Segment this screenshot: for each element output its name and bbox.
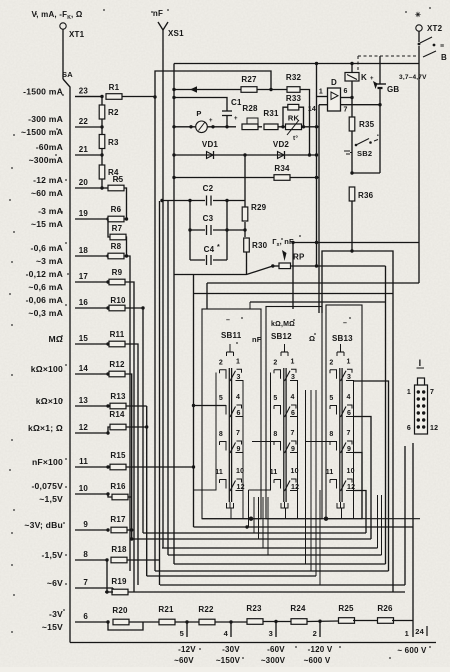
wire bus 533 — [143, 532, 366, 534]
resistor R13 — [110, 403, 126, 409]
wire SB13 pin8 link — [306, 441, 331, 443]
wire C4 row — [190, 259, 227, 261]
wire leg right a — [377, 495, 379, 548]
capacitor C3 — [205, 226, 213, 235]
svg-text:7: 7 — [83, 578, 88, 587]
svg-text:R20: R20 — [112, 606, 128, 615]
contact group pins 2/1/3 — [329, 370, 331, 374]
svg-text:6: 6 — [291, 410, 295, 417]
wire leg SB12 e — [315, 390, 317, 576]
svg-text:2: 2 — [329, 359, 333, 366]
wire leg SB12 c — [305, 390, 307, 564]
svg-text:K: K — [361, 73, 367, 82]
pin 7 stub — [341, 104, 381, 106]
svg-text:≡: ≡ — [440, 43, 444, 50]
svg-text:R15: R15 — [110, 451, 126, 460]
wire R32 down to VD row — [300, 90, 310, 156]
wire left rail — [194, 373, 216, 491]
wire leg SB12 f — [319, 490, 321, 585]
resistor R12 — [109, 371, 125, 377]
pin 14 stub — [319, 104, 328, 106]
wire XT1 to SA — [62, 29, 64, 79]
resistor R30 — [244, 238, 250, 252]
svg-text:12: 12 — [79, 423, 89, 432]
junction SB2 bottom — [350, 171, 353, 174]
wire K top — [351, 64, 353, 73]
svg-text:23: 23 — [79, 87, 89, 96]
RK variable arrow t — [287, 120, 299, 135]
svg-text:P: P — [196, 109, 201, 118]
wire bus 293 — [194, 293, 394, 295]
wire contact 23 — [75, 96, 102, 98]
svg-text:21: 21 — [79, 145, 89, 154]
capacitor C1 — [222, 110, 232, 112]
wire frame B — [155, 71, 271, 97]
wire bus 585 — [160, 584, 405, 586]
svg-text:-0,6 mA: -0,6 mA — [31, 243, 63, 253]
wire — [112, 588, 114, 592]
resistor R31 — [264, 124, 278, 130]
svg-text:2: 2 — [273, 359, 277, 366]
capacitor C4 — [205, 256, 213, 265]
svg-text:~0,3 mA: ~0,3 mA — [28, 308, 63, 318]
box SB11 — [202, 309, 261, 519]
resistor R29 — [242, 207, 248, 221]
wire R33 left — [283, 107, 288, 127]
svg-text:4: 4 — [236, 394, 240, 401]
wire R33 right — [299, 107, 304, 127]
svg-text:R26: R26 — [377, 604, 393, 613]
wire left frame vertical — [173, 64, 175, 565]
svg-text:t°: t° — [293, 134, 298, 142]
wire K to pin6 — [351, 81, 353, 98]
svg-text:2: 2 — [313, 629, 317, 638]
wire contact 19 — [75, 218, 108, 220]
wire C2 row — [162, 200, 245, 202]
wire leg SB11 b — [253, 497, 255, 533]
resistor R17 — [111, 527, 127, 533]
resistor R11 — [109, 341, 125, 347]
svg-text:-3V: -3V — [49, 609, 63, 619]
wire R27 row left — [174, 89, 243, 91]
svg-text:1: 1 — [291, 358, 295, 365]
svg-text:SB13: SB13 — [332, 334, 353, 343]
wire cap bank right rail — [226, 199, 228, 260]
wire sh SB13 down — [341, 508, 343, 519]
relay K — [345, 73, 359, 82]
svg-text:-1,5V: -1,5V — [41, 550, 63, 560]
potentiometer RP — [279, 263, 291, 269]
contact group pins 5/4/6 — [273, 406, 275, 410]
svg-text:~60 mA: ~60 mA — [31, 188, 63, 198]
wire VD row — [174, 154, 317, 156]
wire R7 to R8 — [125, 237, 128, 256]
wire bus 564 — [174, 563, 386, 565]
svg-text:R32: R32 — [286, 73, 302, 82]
svg-text:-0,06 mA: -0,06 mA — [26, 295, 63, 305]
resistor R32 — [287, 87, 300, 93]
wire loop to R16 — [108, 494, 112, 497]
svg-text:SB2: SB2 — [357, 149, 372, 158]
junction — [172, 125, 175, 128]
svg-text:~3 mA: ~3 mA — [36, 256, 63, 266]
svg-text:15: 15 — [79, 334, 89, 343]
tap 5 — [186, 622, 188, 637]
svg-text:7: 7 — [347, 430, 351, 437]
svg-text:6: 6 — [237, 410, 241, 417]
svg-text:8: 8 — [219, 431, 223, 438]
svg-text:R30: R30 — [252, 241, 268, 250]
wire leg SB11 a — [248, 490, 250, 527]
box SB13 — [326, 305, 362, 519]
svg-text:11: 11 — [79, 457, 88, 466]
resistor R18 — [111, 557, 127, 563]
wire contact 12 — [75, 432, 108, 434]
svg-text:~150V: ~150V — [216, 656, 241, 665]
svg-text:R22: R22 — [198, 605, 214, 614]
svg-text:VD1: VD1 — [202, 140, 219, 149]
wire R19 bus row — [128, 591, 405, 593]
wire pin6 to R35 — [351, 98, 353, 118]
wire left vertical 168 — [167, 201, 169, 555]
pin 6 stub — [341, 97, 353, 99]
diode VD2 — [278, 152, 285, 159]
svg-text:R29: R29 — [251, 203, 267, 212]
contact group pins 5/4/6 — [329, 406, 331, 410]
wire R16 right — [128, 496, 132, 498]
wire to SB11 pin5 — [194, 405, 227, 407]
svg-text:R3: R3 — [108, 138, 119, 147]
resistor R35 — [349, 117, 355, 131]
wire VD row to R29 — [244, 155, 246, 207]
wire R18 right — [127, 559, 160, 561]
svg-text:R12: R12 — [109, 360, 125, 369]
wire bus 548 — [162, 547, 378, 549]
svg-text:nF: nF — [153, 9, 163, 18]
wire R26 out tap 1 — [392, 621, 413, 638]
svg-text:12: 12 — [430, 425, 438, 432]
svg-text:11: 11 — [270, 469, 278, 476]
svg-text:-60mA: -60mA — [36, 142, 63, 152]
contact group pins 8/7/9 — [219, 442, 221, 446]
wire leg SB12 a — [262, 497, 264, 548]
switch B — [418, 31, 420, 42]
wire RP right — [291, 265, 386, 267]
wire SB13 pin3 wrap — [354, 381, 389, 571]
resistor R28 — [242, 124, 258, 130]
screen symbol — [340, 502, 342, 503]
wire cap bank left rail — [189, 201, 191, 261]
svg-text:-0,12 mA: -0,12 mA — [26, 269, 63, 279]
svg-text:1: 1 — [319, 89, 323, 96]
wire sh SB11 down — [230, 508, 232, 519]
wire R11 right down — [125, 344, 138, 585]
svg-text:C2: C2 — [203, 184, 214, 193]
svg-text:~300mA: ~300mA — [29, 155, 63, 165]
junction R29-R30 — [243, 228, 246, 231]
wire mid vertical — [316, 64, 318, 267]
capacitor C2 — [205, 196, 213, 205]
svg-text:9: 9 — [347, 446, 351, 453]
junction — [189, 125, 192, 128]
wire contact 14 — [75, 373, 108, 375]
wire sh SB12 down — [285, 508, 287, 519]
wire contact 20 — [75, 187, 102, 189]
resistor R9 — [109, 279, 125, 285]
wire down to SB12 — [292, 243, 294, 310]
resistor R6 — [108, 216, 124, 222]
wire contact 18 — [75, 255, 108, 257]
wire big box left — [193, 275, 195, 528]
svg-text:R36: R36 — [358, 191, 374, 200]
svg-text:R8: R8 — [111, 242, 122, 251]
wire leg gap a — [258, 497, 260, 539]
wire RP left — [273, 265, 279, 267]
svg-text:I: I — [419, 358, 422, 368]
svg-text:3: 3 — [269, 629, 273, 638]
svg-text:R31: R31 — [263, 109, 279, 118]
resistor R16 — [112, 494, 128, 500]
svg-text:6: 6 — [83, 612, 88, 621]
wire contact 7 — [75, 587, 113, 589]
svg-text:✳: ✳ — [415, 11, 421, 19]
svg-text:D: D — [331, 78, 337, 87]
dashed link vertical — [357, 56, 359, 70]
svg-text:-12 mA: -12 mA — [33, 175, 63, 185]
screen symbol — [229, 502, 231, 503]
junction VD row to R29 — [243, 153, 246, 156]
svg-text:-3 mA: -3 mA — [38, 206, 63, 216]
svg-text:9: 9 — [291, 446, 295, 453]
svg-text:R24: R24 — [290, 604, 306, 613]
svg-text:Ω: Ω — [309, 334, 315, 343]
wire right long 413 — [412, 443, 414, 620]
junction C1 bottom — [225, 125, 228, 128]
wire leg SB12 b — [267, 497, 269, 555]
wire contact 6 — [75, 621, 108, 623]
svg-text:R25: R25 — [338, 604, 354, 613]
svg-text:R2: R2 — [108, 108, 119, 117]
pin 1 stub — [317, 96, 328, 98]
wire B switch down — [418, 46, 420, 283]
svg-text:-60V: -60V — [267, 645, 285, 654]
resistor R20 — [113, 619, 129, 625]
svg-text:kΩ,MΩ: kΩ,MΩ — [271, 321, 295, 328]
wire contact 10 — [75, 493, 108, 495]
wire loop to R14 — [108, 427, 110, 433]
svg-text:R13: R13 — [110, 392, 126, 401]
svg-text:C3: C3 — [203, 214, 214, 223]
junction — [172, 88, 175, 91]
resistor RK — [286, 124, 302, 130]
svg-text:*: * — [217, 244, 220, 251]
svg-text:~0,6 mA: ~0,6 mA — [28, 282, 63, 292]
svg-text:R9: R9 — [112, 268, 123, 277]
svg-text:R11: R11 — [110, 330, 125, 339]
wire SB13 pin6 wrap — [354, 417, 372, 540]
wire pin column — [242, 381, 244, 519]
wire contact 15 — [75, 343, 108, 345]
tap 3 — [275, 622, 277, 638]
svg-text:~1,5V: ~1,5V — [39, 494, 63, 504]
svg-text:9: 9 — [83, 520, 88, 529]
svg-text:1: 1 — [236, 358, 240, 365]
svg-text:-0,075V: -0,075V — [32, 481, 64, 491]
svg-text:14: 14 — [79, 364, 89, 373]
resistor R23 — [247, 619, 263, 625]
svg-text:-1500 mA: -1500 mA — [23, 87, 63, 97]
junction — [211, 125, 214, 128]
svg-text:~15 mA: ~15 mA — [31, 219, 63, 229]
resistor R14 — [110, 424, 126, 430]
IC D — [328, 88, 341, 111]
node contact 24 — [426, 626, 428, 636]
svg-text:XT2: XT2 — [427, 24, 443, 33]
wire bus 283 — [207, 282, 419, 284]
svg-text:4: 4 — [291, 394, 295, 401]
wire mid row 242 — [293, 242, 419, 244]
svg-text:~60V: ~60V — [174, 656, 194, 665]
resistor R21 — [159, 619, 175, 625]
svg-text:-300 mA: -300 mA — [28, 114, 63, 124]
svg-text:R33: R33 — [286, 94, 302, 103]
svg-text:C4: C4 — [204, 245, 215, 254]
svg-text:R35: R35 — [359, 120, 375, 129]
contact group pins 11/10/12 — [273, 480, 275, 484]
resistor R36 — [349, 187, 355, 201]
wire right long 405 — [404, 446, 406, 585]
svg-text:18: 18 — [79, 246, 89, 255]
switch SA common — [63, 79, 70, 643]
svg-text:20: 20 — [79, 178, 89, 187]
resistor R24 — [291, 619, 307, 625]
junction — [172, 96, 175, 99]
wire SB12 pin8 link — [252, 441, 274, 443]
svg-text:3: 3 — [291, 374, 295, 381]
resistor R33 — [288, 104, 299, 110]
svg-text:17: 17 — [79, 272, 89, 281]
wire contact 9 — [75, 529, 108, 531]
wire pin column — [353, 381, 355, 519]
wire SB13 pin9 wrap — [354, 453, 363, 519]
wire bus 539 — [132, 538, 371, 540]
svg-text:+: + — [370, 76, 374, 82]
resistor R15 — [110, 464, 126, 470]
svg-text:nF×100: nF×100 — [32, 457, 63, 467]
wire R30 down — [246, 252, 248, 275]
wire contact 21 — [75, 154, 102, 156]
battery GB — [379, 56, 381, 84]
wire frame B vertical — [154, 97, 156, 571]
svg-text:kΩ×100: kΩ×100 — [31, 364, 63, 374]
arrow on wire — [190, 86, 197, 93]
svg-text:~15V: ~15V — [42, 622, 63, 632]
svg-text:kΩ×10: kΩ×10 — [36, 396, 63, 406]
svg-text:9: 9 — [237, 446, 241, 453]
switch SB2 — [351, 131, 353, 173]
terminal XT1 — [60, 23, 66, 29]
svg-text:+: + — [234, 116, 238, 122]
wire bus283 down SB11 — [206, 283, 208, 309]
resistor R5 — [108, 185, 124, 191]
wire R9 right down — [125, 282, 134, 592]
resistor R25 — [339, 618, 355, 624]
svg-text:5: 5 — [329, 395, 333, 402]
contact group pins 8/7/9 — [329, 442, 331, 446]
resistor R4 — [99, 165, 105, 179]
contact group pins 5/4/6 — [220, 406, 227, 415]
wire leg right b — [381, 495, 383, 555]
svg-text:22: 22 — [79, 117, 89, 126]
wire leg SB12 d — [310, 390, 312, 571]
svg-text:~600 V: ~600 V — [304, 656, 331, 665]
wire contact 16 — [75, 307, 108, 309]
contact group pins 8/7/9 — [273, 442, 275, 446]
wire R14 right — [126, 426, 147, 428]
wire contact 22 — [75, 126, 102, 128]
svg-text:R10: R10 — [110, 296, 126, 305]
svg-text:SB11: SB11 — [221, 331, 242, 340]
svg-text:1: 1 — [347, 358, 351, 365]
wire C1 row — [174, 98, 227, 111]
svg-text:XT1: XT1 — [69, 30, 85, 39]
box SB12 — [266, 307, 322, 519]
wire contact 23 — [75, 96, 102, 98]
svg-text:4: 4 — [347, 394, 351, 401]
svg-text:4: 4 — [224, 629, 229, 638]
terminal XS1 — [158, 22, 168, 30]
svg-text:R28: R28 — [242, 104, 258, 113]
svg-text:~300V: ~300V — [261, 656, 286, 665]
resistor R7 — [110, 234, 126, 240]
svg-text:5: 5 — [219, 395, 223, 402]
svg-text:R34: R34 — [274, 164, 290, 173]
resistor R2 — [99, 105, 105, 119]
wire left rail — [249, 373, 271, 491]
svg-text:kΩ×1; Ω: kΩ×1; Ω — [28, 423, 63, 433]
svg-text:–: – — [343, 320, 347, 327]
wire contact 11 — [75, 466, 108, 468]
diode VD1 — [207, 152, 214, 159]
svg-text:R16: R16 — [110, 482, 126, 491]
resistor R19 — [112, 589, 128, 595]
svg-text:MΩ: MΩ — [49, 334, 63, 344]
resistor R22 — [199, 619, 215, 625]
resistor R10 — [109, 305, 125, 311]
wire contact 17 — [75, 281, 108, 283]
wire R8 right down — [124, 256, 130, 571]
svg-text:3: 3 — [237, 374, 241, 381]
wire meter row — [174, 126, 196, 128]
wire XS1 vertical — [162, 30, 164, 548]
svg-text:3,7–4,7V: 3,7–4,7V — [399, 74, 427, 81]
wire bus 518 — [202, 518, 420, 520]
svg-text:R23: R23 — [246, 604, 262, 613]
svg-text:5: 5 — [180, 629, 184, 638]
svg-text:5: 5 — [273, 395, 277, 402]
svg-text:6: 6 — [347, 410, 351, 417]
tap 2 — [319, 621, 321, 637]
svg-text:+: + — [209, 118, 213, 124]
svg-text:16: 16 — [79, 298, 89, 307]
svg-text:C1: C1 — [231, 98, 242, 107]
svg-text:14: 14 — [308, 106, 316, 113]
junction — [315, 125, 318, 128]
wire vertical 146 — [146, 406, 148, 576]
svg-text:7: 7 — [291, 430, 295, 437]
junction — [302, 125, 305, 128]
terminal XT2 — [416, 25, 422, 31]
